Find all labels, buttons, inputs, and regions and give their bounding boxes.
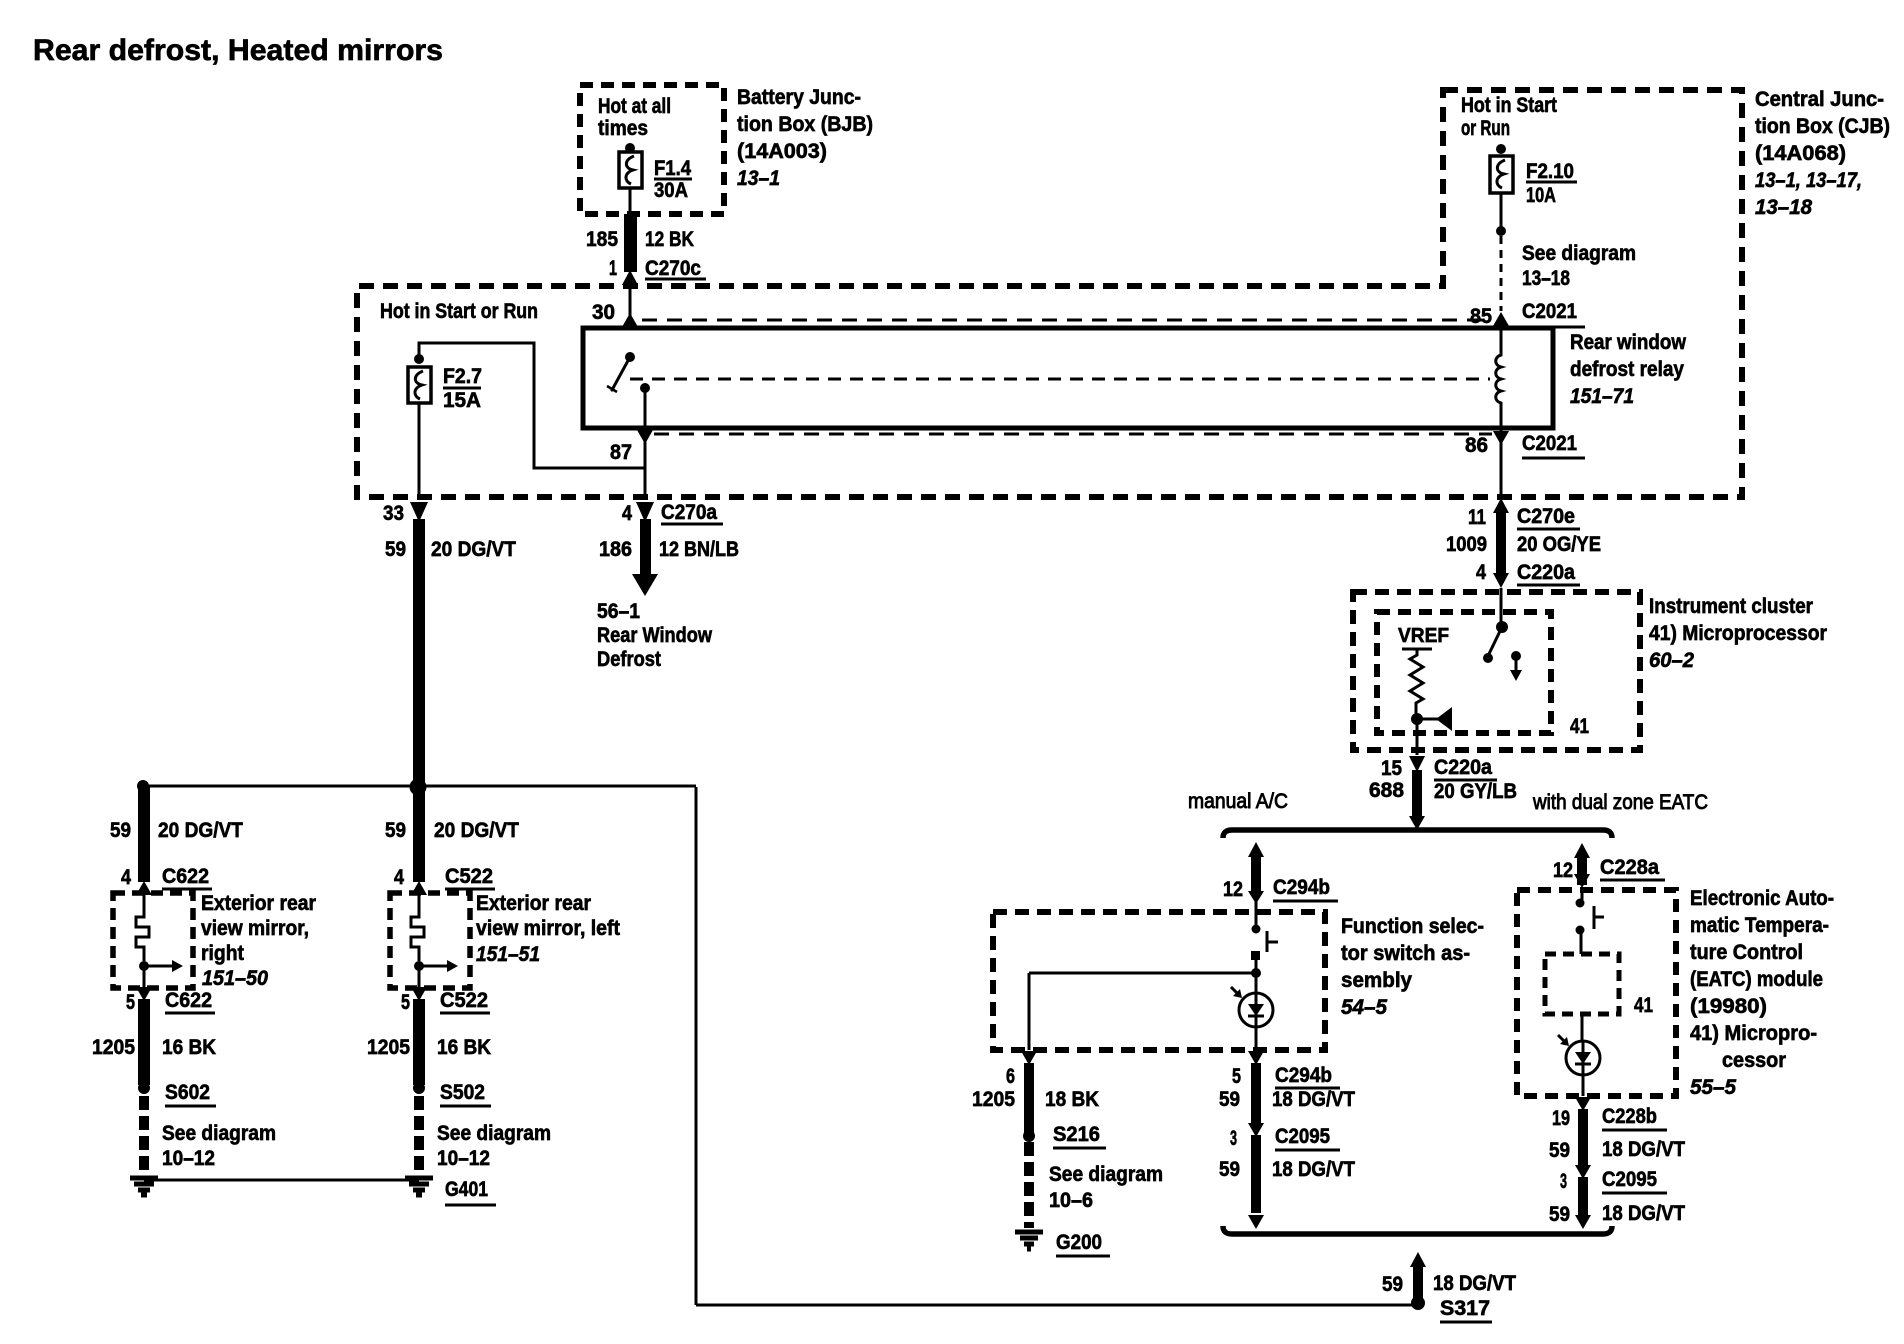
svg-text:Hot in Start or Run: Hot in Start or Run [380, 300, 538, 323]
svg-text:185: 185 [586, 228, 618, 251]
svg-text:15A: 15A [443, 389, 481, 412]
svg-text:87: 87 [610, 441, 632, 464]
svg-text:C228b: C228b [1602, 1105, 1657, 1128]
svg-text:tion Box (CJB): tion Box (CJB) [1755, 115, 1890, 138]
svg-text:VREF: VREF [1398, 625, 1449, 647]
svg-text:20 GY/LB: 20 GY/LB [1434, 780, 1517, 803]
svg-text:56–1: 56–1 [597, 600, 640, 623]
svg-text:18 DG/VT: 18 DG/VT [1272, 1088, 1355, 1111]
svg-text:manual A/C: manual A/C [1188, 790, 1288, 813]
svg-text:4: 4 [121, 866, 131, 889]
svg-text:C2095: C2095 [1602, 1168, 1657, 1191]
svg-text:right: right [201, 942, 244, 965]
svg-text:86: 86 [1465, 434, 1488, 457]
svg-text:10–12: 10–12 [162, 1147, 215, 1170]
svg-text:33: 33 [383, 502, 404, 525]
svg-text:13–18: 13–18 [1522, 267, 1570, 290]
svg-text:G200: G200 [1056, 1231, 1102, 1254]
svg-text:18 BK: 18 BK [1045, 1088, 1099, 1111]
svg-text:or Run: or Run [1461, 117, 1510, 140]
svg-text:10–12: 10–12 [437, 1147, 490, 1170]
svg-text:See diagram: See diagram [437, 1122, 551, 1145]
svg-text:matic Tempera-: matic Tempera- [1690, 914, 1829, 937]
svg-text:12 BK: 12 BK [645, 228, 694, 251]
svg-text:G401: G401 [445, 1178, 488, 1201]
svg-text:See diagram: See diagram [1522, 242, 1636, 265]
svg-text:Rear Window: Rear Window [597, 624, 713, 647]
svg-text:55–5: 55–5 [1690, 1076, 1736, 1099]
svg-text:30A: 30A [654, 179, 688, 202]
svg-text:C294b: C294b [1275, 1064, 1332, 1087]
svg-text:60–2: 60–2 [1649, 649, 1694, 672]
svg-text:S317: S317 [1440, 1297, 1490, 1320]
svg-text:defrost relay: defrost relay [1570, 358, 1684, 381]
svg-text:54–5: 54–5 [1341, 996, 1387, 1019]
svg-text:20 DG/VT: 20 DG/VT [431, 538, 516, 561]
svg-text:1: 1 [609, 257, 617, 280]
svg-text:times: times [598, 117, 648, 140]
svg-text:Electronic Auto-: Electronic Auto- [1690, 887, 1834, 910]
svg-text:18 DG/VT: 18 DG/VT [1272, 1158, 1355, 1181]
svg-text:C622: C622 [165, 989, 212, 1012]
svg-text:13–1: 13–1 [737, 167, 780, 190]
svg-text:C522: C522 [440, 989, 488, 1012]
svg-text:Rear defrost, Heated mirrors: Rear defrost, Heated mirrors [33, 34, 443, 67]
svg-text:C220a: C220a [1517, 561, 1575, 584]
svg-text:20 DG/VT: 20 DG/VT [434, 819, 519, 842]
svg-text:1009: 1009 [1446, 533, 1487, 556]
svg-text:C220a: C220a [1434, 756, 1492, 779]
svg-text:Battery Junc-: Battery Junc- [737, 86, 861, 109]
svg-text:20 OG/YE: 20 OG/YE [1517, 533, 1601, 556]
svg-text:59: 59 [1549, 1139, 1570, 1162]
svg-text:59: 59 [1219, 1088, 1240, 1111]
svg-text:C522: C522 [445, 865, 493, 888]
svg-text:C622: C622 [162, 865, 209, 888]
svg-text:Hot at all: Hot at all [598, 95, 671, 118]
svg-text:1205: 1205 [92, 1036, 135, 1059]
svg-text:59: 59 [110, 819, 131, 842]
svg-text:Central Junc-: Central Junc- [1755, 88, 1884, 111]
svg-text:19: 19 [1552, 1107, 1570, 1130]
svg-text:4: 4 [1476, 561, 1486, 584]
svg-text:11: 11 [1468, 506, 1486, 529]
svg-text:S216: S216 [1053, 1123, 1100, 1146]
svg-text:Instrument cluster: Instrument cluster [1649, 595, 1813, 618]
svg-text:F2.10: F2.10 [1526, 160, 1574, 183]
svg-text:41: 41 [1570, 715, 1589, 738]
svg-text:59: 59 [1382, 1273, 1403, 1296]
svg-text:688: 688 [1369, 779, 1404, 802]
svg-text:Function selec-: Function selec- [1341, 915, 1484, 938]
svg-text:1205: 1205 [367, 1036, 410, 1059]
svg-text:C2021: C2021 [1522, 432, 1577, 455]
svg-text:41: 41 [1634, 994, 1653, 1017]
svg-text:59: 59 [385, 538, 406, 561]
svg-text:(14A003): (14A003) [737, 140, 827, 163]
svg-text:(14A068): (14A068) [1755, 142, 1846, 165]
svg-text:tion Box (BJB): tion Box (BJB) [737, 113, 873, 136]
svg-text:6: 6 [1006, 1065, 1015, 1088]
svg-text:cessor: cessor [1722, 1049, 1786, 1072]
svg-text:Exterior rear: Exterior rear [476, 892, 591, 915]
svg-text:30: 30 [592, 301, 615, 324]
svg-text:151–71: 151–71 [1570, 385, 1634, 408]
svg-text:12: 12 [1553, 859, 1573, 882]
svg-text:S602: S602 [165, 1081, 210, 1104]
svg-text:ture Control: ture Control [1690, 941, 1803, 964]
svg-text:Rear window: Rear window [1570, 331, 1687, 354]
svg-text:10A: 10A [1526, 184, 1556, 207]
svg-text:1205: 1205 [972, 1088, 1015, 1111]
svg-text:59: 59 [385, 819, 406, 842]
svg-text:Hot in Start: Hot in Start [1461, 94, 1557, 117]
svg-text:151–51: 151–51 [476, 943, 540, 966]
svg-text:15: 15 [1381, 757, 1402, 780]
svg-text:3: 3 [1560, 1170, 1567, 1193]
svg-text:sembly: sembly [1341, 969, 1412, 992]
svg-text:16 BK: 16 BK [437, 1036, 491, 1059]
svg-text:(EATC) module: (EATC) module [1690, 968, 1823, 991]
svg-text:151–50: 151–50 [202, 967, 268, 990]
svg-text:C2021: C2021 [1522, 300, 1577, 323]
svg-text:C270a: C270a [661, 501, 717, 524]
svg-text:59: 59 [1549, 1203, 1570, 1226]
svg-text:4: 4 [394, 866, 404, 889]
svg-text:C270e: C270e [1517, 505, 1575, 528]
svg-text:41) Microprocessor: 41) Microprocessor [1649, 622, 1827, 645]
svg-text:with dual zone EATC: with dual zone EATC [1532, 791, 1708, 814]
svg-text:12 BN/LB: 12 BN/LB [659, 538, 739, 561]
svg-text:C228a: C228a [1600, 856, 1659, 879]
svg-text:See diagram: See diagram [162, 1122, 276, 1145]
svg-text:20 DG/VT: 20 DG/VT [158, 819, 243, 842]
svg-text:5: 5 [126, 991, 135, 1014]
svg-text:Defrost: Defrost [597, 648, 661, 671]
svg-text:85: 85 [1470, 305, 1492, 328]
svg-text:See diagram: See diagram [1049, 1163, 1163, 1186]
svg-text:13–18: 13–18 [1755, 196, 1812, 219]
svg-text:C270c: C270c [645, 257, 701, 280]
svg-text:3: 3 [1230, 1127, 1237, 1150]
svg-text:18 DG/VT: 18 DG/VT [1602, 1138, 1685, 1161]
svg-text:13–1, 13–17,: 13–1, 13–17, [1755, 169, 1862, 192]
svg-text:F1.4: F1.4 [654, 157, 691, 180]
svg-text:Exterior rear: Exterior rear [201, 892, 316, 915]
svg-text:view mirror,: view mirror, [201, 917, 309, 940]
svg-text:59: 59 [1219, 1158, 1240, 1181]
svg-text:10–6: 10–6 [1049, 1189, 1093, 1212]
svg-text:41) Micropro-: 41) Micropro- [1690, 1022, 1817, 1045]
svg-text:4: 4 [622, 502, 632, 525]
svg-text:5: 5 [1232, 1065, 1241, 1088]
svg-text:C294b: C294b [1273, 876, 1330, 899]
svg-text:F2.7: F2.7 [443, 365, 482, 388]
svg-text:18 DG/VT: 18 DG/VT [1433, 1272, 1516, 1295]
svg-text:186: 186 [599, 538, 632, 561]
svg-text:tor switch as-: tor switch as- [1341, 942, 1470, 965]
svg-text:view mirror, left: view mirror, left [476, 917, 620, 940]
svg-text:18 DG/VT: 18 DG/VT [1602, 1202, 1685, 1225]
svg-text:16 BK: 16 BK [162, 1036, 216, 1059]
svg-text:12: 12 [1223, 878, 1243, 901]
svg-text:(19980): (19980) [1690, 995, 1767, 1018]
svg-text:5: 5 [401, 991, 410, 1014]
svg-text:S502: S502 [440, 1081, 485, 1104]
svg-text:C2095: C2095 [1275, 1125, 1330, 1148]
